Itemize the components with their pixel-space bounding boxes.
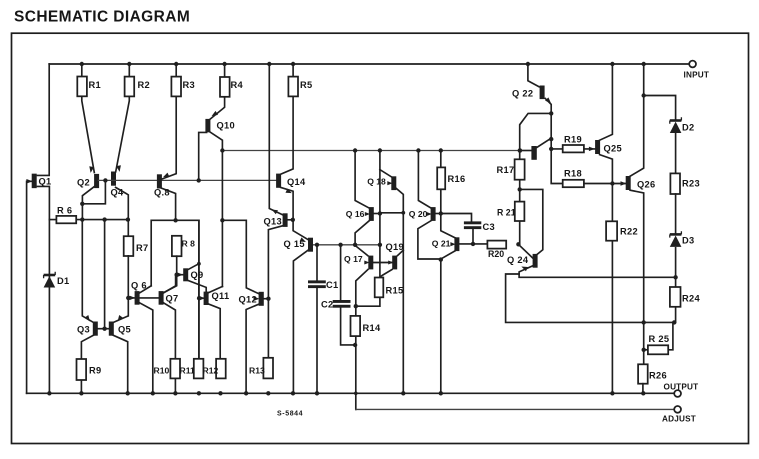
transistor Q21 [441, 251, 455, 259]
svg-text:Q3: Q3 [77, 325, 90, 335]
svg-text:Q1: Q1 [39, 177, 52, 187]
svg-text:Q.8: Q.8 [154, 188, 170, 198]
transistor Q5 [113, 256, 128, 323]
svg-text:R16: R16 [448, 174, 466, 184]
resistor R6 [56, 216, 76, 223]
resistor R5 [292, 64, 294, 77]
svg-text:R23: R23 [682, 178, 700, 188]
svg-text:Q 15: Q 15 [284, 239, 305, 249]
resistor R1 [82, 64, 95, 173]
diode D1 (zener) [48, 220, 50, 394]
wire Q6-Q7 base tie [129, 297, 159, 299]
diode D3 (zener) [670, 233, 682, 236]
wire Q2-Q4 base tie and mirror drop [98, 179, 276, 181]
svg-text:R17: R17 [497, 165, 515, 175]
svg-text:R18: R18 [564, 168, 582, 178]
svg-text:R26: R26 [649, 370, 667, 380]
svg-text:R22: R22 [620, 226, 638, 236]
svg-text:SCHEMATIC DIAGRAM: SCHEMATIC DIAGRAM [14, 9, 190, 26]
resistor R3 [175, 64, 177, 97]
svg-text:R2: R2 [138, 80, 150, 90]
svg-text:Q19: Q19 [386, 242, 404, 252]
transistor Q25 [600, 64, 613, 140]
svg-text:R4: R4 [231, 80, 244, 90]
svg-text:Q 24: Q 24 [507, 255, 529, 265]
diode D2 (zener) [670, 119, 682, 122]
transistor Q15 [293, 250, 308, 393]
resistor R24 [670, 287, 681, 307]
wire Q3-Q5 base tie [97, 328, 109, 330]
node INPUT terminal [689, 61, 696, 68]
svg-text:R19: R19 [564, 134, 582, 144]
transistor Q10 [210, 97, 225, 119]
wire Q16-Q18 collector link [380, 212, 403, 214]
wire current-mirror node rail left [151, 220, 199, 358]
transistor Q24 [518, 244, 532, 258]
transistor Q12 [246, 304, 259, 393]
transistor Q14 [281, 96, 293, 174]
transistor Q26 [630, 96, 644, 177]
svg-text:R13: R13 [249, 366, 265, 376]
svg-text:Q26: Q26 [637, 180, 655, 190]
svg-text:Q13: Q13 [264, 217, 282, 227]
resistor R16 [441, 151, 455, 238]
resistor R25 [644, 349, 648, 351]
wire top supply rail [49, 63, 689, 65]
resistor R11 [194, 359, 204, 379]
transistor Q11 [209, 287, 223, 293]
transistor Q3 [82, 220, 93, 323]
resistor R13 [263, 358, 273, 379]
svg-text:Q11: Q11 [212, 291, 230, 301]
svg-text:OUTPUT: OUTPUT [664, 382, 699, 391]
svg-text:R12: R12 [203, 366, 219, 376]
transistor Q20 [418, 151, 431, 209]
svg-text:Q7: Q7 [166, 294, 179, 304]
svg-text:R3: R3 [183, 80, 195, 90]
svg-text:Q 22: Q 22 [512, 89, 533, 99]
wire output rail [27, 392, 675, 394]
svg-text:D2: D2 [682, 122, 694, 132]
wire Q9 collector rail [198, 220, 200, 358]
resistor R4 [224, 64, 226, 97]
resistor R17 [515, 159, 525, 179]
resistor R8 [172, 236, 182, 256]
svg-text:R11: R11 [180, 366, 196, 376]
svg-text:ADJUST: ADJUST [662, 414, 696, 423]
svg-text:INPUT: INPUT [684, 71, 710, 80]
transistor Q7 [164, 275, 176, 293]
svg-text:R1: R1 [89, 80, 101, 90]
transistor Q6 [140, 286, 152, 293]
resistor R9 [77, 359, 87, 380]
svg-text:Q 20: Q 20 [409, 209, 428, 219]
svg-text:Q25: Q25 [604, 144, 622, 154]
transistor Q19 [398, 250, 404, 255]
resistor R20 [487, 241, 506, 249]
resistor R7 [124, 236, 134, 256]
capacitor C1 [316, 245, 318, 281]
svg-text:R 21: R 21 [497, 207, 516, 217]
svg-text:R24: R24 [682, 293, 700, 303]
resistor R19 [551, 148, 596, 150]
transistor Q1 [37, 64, 49, 175]
capacitor C2 [340, 245, 342, 300]
capacitor C3 [441, 214, 472, 222]
wire mid bias rail [222, 150, 520, 152]
resistor R12 [216, 359, 226, 379]
transistor Q23 [520, 150, 532, 152]
svg-text:C3: C3 [483, 222, 495, 232]
svg-text:Q 16: Q 16 [346, 209, 365, 219]
resistor R21 [519, 151, 521, 245]
wire Q13 collector column [269, 64, 282, 215]
wire Q11-Q12 branch [222, 220, 259, 293]
svg-text:R14: R14 [363, 323, 381, 333]
resistor R23 [670, 173, 680, 194]
transistor Q13 [268, 226, 282, 359]
resistor R14 [351, 316, 361, 336]
svg-text:D1: D1 [57, 276, 69, 286]
svg-text:Q 21: Q 21 [432, 239, 451, 249]
svg-text:Q2: Q2 [77, 178, 90, 188]
svg-text:Q 17: Q 17 [344, 254, 363, 264]
transistor Q17 [355, 246, 368, 256]
transistor Q2 [82, 186, 94, 219]
svg-text:Q 6: Q 6 [131, 281, 147, 291]
resistor R18 [563, 180, 584, 187]
transistor Q9 [189, 264, 199, 270]
resistor R10 [170, 359, 180, 379]
transistor Q4 [116, 187, 129, 236]
svg-text:Q5: Q5 [118, 325, 131, 335]
svg-text:Q9: Q9 [191, 270, 204, 280]
svg-text:Q12: Q12 [239, 295, 257, 305]
svg-text:R7: R7 [136, 243, 148, 253]
svg-text:R15: R15 [386, 286, 404, 296]
svg-text:C2: C2 [321, 300, 333, 310]
wire INPUT branch to D2 [644, 64, 676, 119]
svg-text:R20: R20 [488, 249, 504, 259]
svg-text:Q10: Q10 [217, 121, 235, 131]
svg-text:Q4: Q4 [111, 188, 125, 198]
resistor R2 [116, 64, 130, 172]
svg-text:R5: R5 [300, 80, 312, 90]
transistor Q18 [380, 170, 392, 178]
node ADJUST terminal [674, 406, 681, 413]
svg-text:C1: C1 [326, 280, 338, 290]
transistor Q22 [528, 64, 539, 87]
svg-text:D3: D3 [682, 235, 694, 245]
svg-text:R 6: R 6 [57, 206, 72, 216]
svg-text:R 8: R 8 [182, 239, 196, 249]
transistor Q8 [161, 97, 176, 180]
svg-text:R9: R9 [89, 366, 101, 376]
svg-text:S-5844: S-5844 [277, 410, 303, 417]
svg-text:R10: R10 [154, 366, 170, 376]
resistor R15 [375, 278, 384, 298]
node OUTPUT terminal [674, 390, 681, 397]
svg-text:Q 18: Q 18 [367, 177, 386, 187]
svg-text:R 25: R 25 [649, 334, 670, 344]
transistor Q16 [355, 151, 369, 209]
wire R6 rail [49, 219, 128, 221]
resistor R22 [606, 221, 617, 240]
wire R17 to Q24 bracket [520, 189, 543, 255]
svg-text:Q14: Q14 [287, 177, 306, 187]
resistor R26 [638, 364, 648, 383]
